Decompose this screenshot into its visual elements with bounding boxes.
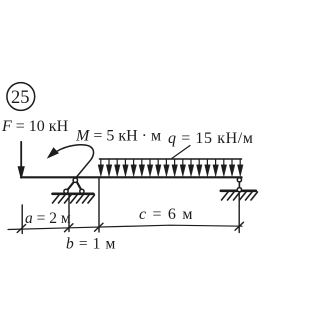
force F arrow <box>18 142 24 179</box>
hatching under pin support <box>53 195 95 203</box>
svg-text:25: 25 <box>11 88 30 108</box>
svg-text:q = 15 кН/м: q = 15 кН/м <box>168 130 254 147</box>
dimension tick slash at x=240 <box>235 222 244 230</box>
extension line under pin support <box>68 194 70 232</box>
svg-text:M = 5 кН · м: M = 5 кН · м <box>75 128 161 145</box>
leader line from q label <box>172 146 190 159</box>
problem number circle 25 <box>7 83 35 111</box>
extension line under roller support <box>238 192 240 233</box>
dimension line <box>8 225 242 229</box>
moment M curved arrow <box>48 145 94 178</box>
svg-text:b = 1 м: b = 1 м <box>66 235 116 252</box>
ground line under pin support <box>53 193 94 196</box>
svg-text:F = 10 кН: F = 10 кН <box>1 118 69 135</box>
svg-text:a = 2 м: a = 2 м <box>25 210 71 227</box>
dimension tick slash at x=99 <box>95 223 104 231</box>
svg-text:c = 6 м: c = 6 м <box>139 206 194 223</box>
hatching under roller support <box>222 192 258 200</box>
pin support (left) <box>64 178 84 193</box>
distributed load top line <box>99 158 241 160</box>
beam <box>21 176 242 178</box>
roller support (right) <box>237 178 241 192</box>
extension line at left beam end <box>21 205 23 234</box>
distributed load arrows <box>98 160 243 177</box>
ground line under roller support <box>221 190 256 193</box>
extension line at load start <box>98 179 100 233</box>
dimension tick slash at x=22 <box>17 225 25 233</box>
dimension tick slash at x=69 <box>65 224 74 232</box>
